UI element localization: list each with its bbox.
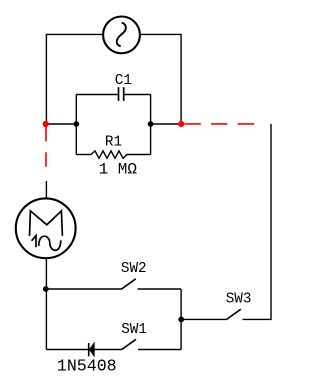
- svg-text:R1: R1: [105, 135, 122, 151]
- svg-text:1 MΩ: 1 MΩ: [99, 161, 138, 179]
- svg-text:SW1: SW1: [121, 322, 147, 338]
- svg-text:1N5408: 1N5408: [57, 356, 117, 375]
- svg-text:SW3: SW3: [226, 292, 252, 308]
- svg-text:C1: C1: [115, 73, 132, 89]
- svg-text:SW2: SW2: [121, 261, 147, 277]
